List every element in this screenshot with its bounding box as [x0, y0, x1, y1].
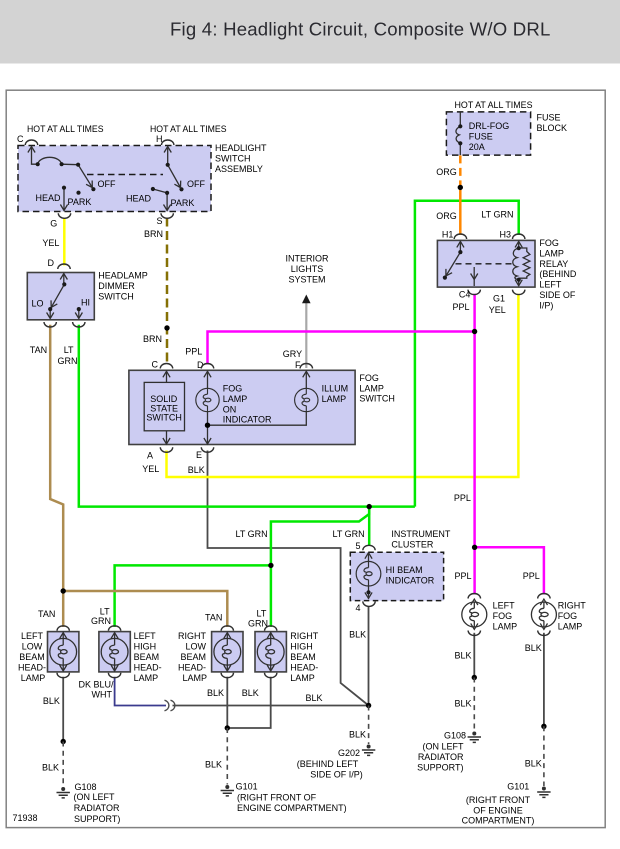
svg-text:FOG: FOG [558, 611, 578, 621]
svg-text:HEADLIGHT: HEADLIGHT [215, 143, 267, 153]
svg-text:LEFT: LEFT [493, 601, 516, 611]
svg-text:COMPARTMENT): COMPARTMENT) [462, 816, 535, 826]
svg-text:LT GRN: LT GRN [236, 529, 268, 539]
svg-text:G108: G108 [444, 731, 466, 741]
svg-text:4: 4 [356, 603, 361, 613]
svg-text:LAMP: LAMP [493, 621, 518, 631]
svg-text:BEAM: BEAM [290, 652, 316, 662]
svg-text:RELAY: RELAY [539, 259, 568, 269]
svg-text:FUSE: FUSE [537, 113, 561, 123]
svg-text:20A: 20A [469, 142, 485, 152]
svg-text:INTERIOR: INTERIOR [285, 254, 329, 264]
svg-text:HEAD-: HEAD- [290, 663, 318, 673]
svg-text:DK BLU/: DK BLU/ [79, 679, 115, 689]
svg-text:HEAD: HEAD [36, 193, 62, 203]
svg-text:ASSEMBLY: ASSEMBLY [215, 164, 263, 174]
svg-text:ON: ON [223, 405, 237, 415]
svg-text:HI: HI [81, 298, 90, 308]
svg-text:Fig 4: Headlight Circuit, Comp: Fig 4: Headlight Circuit, Composite W/O … [170, 19, 551, 40]
svg-text:HIGH: HIGH [290, 642, 313, 652]
svg-text:C: C [152, 360, 159, 370]
svg-text:RIGHT: RIGHT [558, 601, 587, 611]
svg-text:SUPPORT): SUPPORT) [417, 762, 463, 772]
svg-text:LAMP: LAMP [359, 383, 384, 393]
svg-text:BLK: BLK [207, 688, 224, 698]
svg-text:BLOCK: BLOCK [537, 123, 568, 133]
svg-text:LOW: LOW [22, 642, 43, 652]
svg-text:BLK: BLK [205, 760, 222, 770]
svg-text:OFF: OFF [98, 179, 116, 189]
svg-text:HEAD-: HEAD- [178, 663, 206, 673]
svg-text:FOG: FOG [223, 384, 243, 394]
svg-text:CLUSTER: CLUSTER [391, 540, 434, 550]
svg-text:LAMP: LAMP [182, 673, 207, 683]
svg-text:HIGH: HIGH [134, 642, 157, 652]
svg-text:(BEHIND: (BEHIND [539, 269, 577, 279]
svg-text:LT: LT [64, 345, 74, 355]
svg-text:(RIGHT FRONT: (RIGHT FRONT [466, 795, 531, 805]
svg-text:BLK: BLK [525, 643, 542, 653]
svg-text:YEL: YEL [142, 464, 159, 474]
svg-text:HI BEAM: HI BEAM [386, 565, 423, 575]
svg-text:HEAD-: HEAD- [134, 663, 162, 673]
svg-text:GRN: GRN [248, 619, 268, 629]
svg-text:C: C [17, 134, 24, 144]
svg-text:LAMP: LAMP [21, 673, 46, 683]
svg-text:DRL-FOG: DRL-FOG [469, 121, 510, 131]
svg-text:(RIGHT FRONT OF: (RIGHT FRONT OF [237, 793, 317, 803]
svg-text:LEFT: LEFT [21, 631, 44, 641]
svg-text:LAMP: LAMP [558, 621, 583, 631]
svg-text:DIMMER: DIMMER [98, 281, 135, 291]
svg-text:ORG: ORG [436, 167, 457, 177]
svg-text:GRN: GRN [91, 616, 111, 626]
svg-text:5: 5 [356, 541, 361, 551]
svg-text:LT: LT [257, 609, 267, 619]
svg-text:71938: 71938 [13, 813, 38, 823]
svg-text:ORG: ORG [436, 211, 457, 221]
svg-text:LT GRN: LT GRN [333, 529, 365, 539]
svg-text:BLK: BLK [525, 759, 542, 769]
svg-text:RADIATOR: RADIATOR [74, 803, 120, 813]
svg-text:YEL: YEL [489, 305, 506, 315]
svg-text:G108: G108 [75, 782, 97, 792]
svg-text:ILLUM: ILLUM [322, 384, 349, 394]
svg-text:FOG: FOG [493, 611, 512, 621]
svg-text:PPL: PPL [455, 571, 472, 581]
svg-text:BLK: BLK [188, 465, 205, 475]
svg-text:INDICATOR: INDICATOR [223, 415, 272, 425]
svg-text:LAMP: LAMP [134, 673, 159, 683]
svg-text:BRN: BRN [144, 229, 163, 239]
svg-text:RIGHT: RIGHT [178, 631, 207, 641]
svg-text:A: A [147, 451, 153, 461]
svg-text:BLK: BLK [306, 693, 323, 703]
svg-text:LAMP: LAMP [290, 673, 315, 683]
svg-text:BEAM: BEAM [180, 652, 206, 662]
svg-text:INDICATOR: INDICATOR [386, 576, 435, 586]
svg-text:(BEHIND LEFT: (BEHIND LEFT [297, 759, 359, 769]
svg-text:FOG: FOG [539, 238, 559, 248]
svg-text:RADIATOR: RADIATOR [418, 752, 464, 762]
svg-text:D: D [48, 258, 55, 268]
svg-text:LOW: LOW [185, 642, 206, 652]
svg-text:LEFT: LEFT [539, 280, 562, 290]
svg-text:BLK: BLK [43, 696, 60, 706]
svg-text:WHT: WHT [92, 689, 113, 699]
svg-text:LIGHTS: LIGHTS [291, 264, 324, 274]
svg-text:FOG: FOG [359, 373, 379, 383]
svg-text:LEFT: LEFT [134, 631, 157, 641]
svg-text:BLK: BLK [349, 730, 366, 740]
svg-text:PPL: PPL [453, 302, 470, 312]
svg-text:HOT AT ALL TIMES: HOT AT ALL TIMES [27, 124, 104, 134]
svg-text:S: S [157, 216, 163, 226]
svg-text:G: G [50, 218, 57, 228]
svg-text:BEAM: BEAM [19, 652, 45, 662]
svg-text:OFF: OFF [187, 179, 205, 189]
svg-text:BLK: BLK [455, 699, 472, 709]
svg-text:BLK: BLK [455, 651, 472, 661]
svg-text:LO: LO [32, 299, 44, 309]
svg-text:C4: C4 [459, 290, 471, 300]
svg-text:SWITCH: SWITCH [146, 413, 182, 423]
svg-text:E: E [196, 450, 202, 460]
svg-text:TAN: TAN [38, 609, 55, 619]
svg-text:SYSTEM: SYSTEM [288, 275, 325, 285]
svg-text:GRN: GRN [58, 356, 78, 366]
svg-text:HEADLAMP: HEADLAMP [98, 271, 148, 281]
svg-text:INSTRUMENT: INSTRUMENT [391, 529, 450, 539]
svg-text:I/P): I/P) [539, 300, 553, 310]
svg-text:BRN: BRN [143, 334, 162, 344]
svg-text:HEAD: HEAD [126, 194, 152, 204]
svg-text:SWITCH: SWITCH [359, 394, 395, 404]
svg-text:HOT AT ALL TIMES: HOT AT ALL TIMES [150, 124, 227, 134]
svg-text:RIGHT: RIGHT [290, 631, 319, 641]
svg-text:FUSE: FUSE [469, 132, 493, 142]
svg-text:SIDE OF: SIDE OF [539, 290, 576, 300]
svg-text:G1: G1 [493, 294, 505, 304]
svg-text:LT: LT [100, 607, 110, 617]
svg-text:(ON LEFT: (ON LEFT [422, 742, 464, 752]
svg-text:H1: H1 [442, 230, 454, 240]
svg-text:OF ENGINE: OF ENGINE [473, 805, 523, 815]
svg-text:PPL: PPL [185, 346, 202, 356]
svg-text:LAMP: LAMP [539, 248, 564, 258]
svg-text:H3: H3 [500, 230, 512, 240]
svg-text:LT GRN: LT GRN [481, 210, 513, 220]
svg-text:TAN: TAN [30, 345, 47, 355]
svg-text:BLK: BLK [349, 629, 366, 639]
svg-text:PARK: PARK [68, 197, 92, 207]
svg-text:G101: G101 [507, 782, 529, 792]
svg-text:SWITCH: SWITCH [98, 292, 134, 302]
svg-text:BLK: BLK [242, 688, 259, 698]
svg-text:HEAD-: HEAD- [18, 663, 46, 673]
svg-text:PPL: PPL [454, 493, 471, 503]
svg-text:BEAM: BEAM [134, 652, 160, 662]
svg-text:PPL: PPL [523, 571, 540, 581]
svg-text:LAMP: LAMP [223, 394, 248, 404]
svg-text:BLK: BLK [42, 763, 59, 773]
svg-text:SIDE OF I/P): SIDE OF I/P) [310, 769, 363, 779]
svg-text:SWITCH: SWITCH [215, 154, 251, 164]
svg-text:ENGINE COMPARTMENT): ENGINE COMPARTMENT) [237, 803, 347, 813]
svg-text:HOT AT ALL TIMES: HOT AT ALL TIMES [455, 100, 533, 110]
svg-text:(ON LEFT: (ON LEFT [74, 792, 116, 802]
svg-text:G101: G101 [236, 782, 258, 792]
svg-text:LAMP: LAMP [322, 394, 347, 404]
svg-text:PARK: PARK [171, 198, 195, 208]
svg-text:G202: G202 [338, 748, 360, 758]
svg-text:TAN: TAN [205, 613, 222, 623]
svg-text:GRY: GRY [283, 349, 302, 359]
svg-text:SUPPORT): SUPPORT) [74, 814, 120, 824]
svg-text:YEL: YEL [42, 238, 59, 248]
